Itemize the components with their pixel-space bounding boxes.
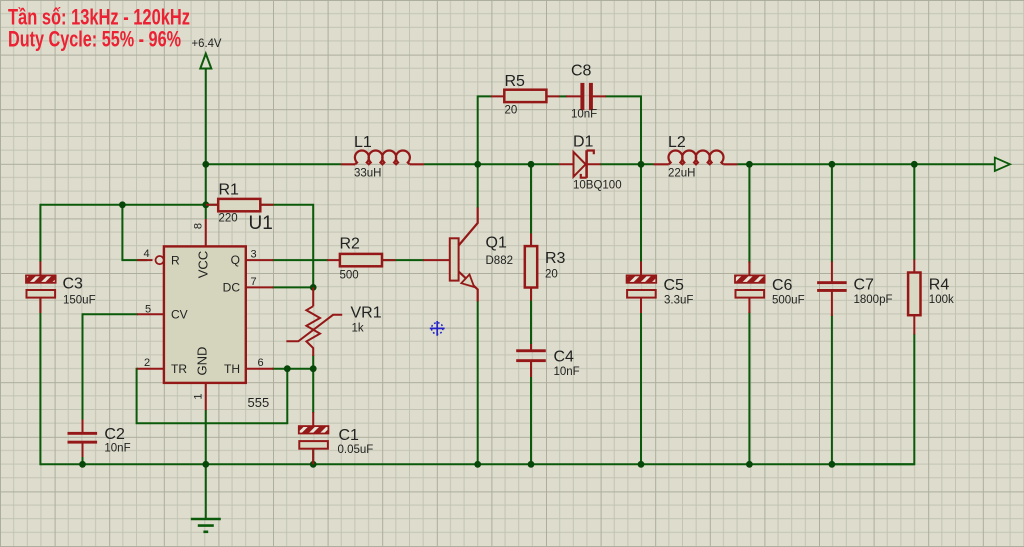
pin 5 CV	[137, 304, 188, 322]
svg-text:C2: C2	[104, 426, 125, 443]
wire C7 bottom to rail	[831, 315, 833, 465]
wire C3 branch vertical bottom	[39, 298, 41, 465]
capacitor C8 10nF	[566, 63, 606, 121]
wire C6 bottom to rail	[748, 312, 750, 464]
svg-text:22uH: 22uH	[668, 168, 696, 180]
pin 4 R with inversion bubble	[137, 248, 180, 267]
svg-text:C1: C1	[339, 427, 360, 444]
resistor R4	[908, 260, 954, 335]
svg-text:C8: C8	[571, 63, 592, 80]
svg-text:D882: D882	[486, 255, 514, 267]
inductor L1 33uH	[341, 134, 424, 180]
wire R2 to Q1 base	[382, 259, 425, 261]
node C5 bottom rail junction	[638, 461, 645, 468]
node R3 top junction	[528, 161, 535, 168]
potentiometer VR1 1k	[286, 287, 381, 356]
wire ground stem	[205, 464, 207, 519]
wire TH row horizontal	[272, 368, 313, 370]
ground	[191, 519, 221, 532]
wire reset branch from R1 row to pin4	[122, 205, 147, 260]
wire C2 bottom to rail	[82, 443, 84, 464]
wire top rail segment 1	[206, 163, 341, 165]
svg-text:10nF: 10nF	[554, 366, 580, 378]
node C6 top junction	[746, 161, 753, 168]
svg-text:R2: R2	[340, 236, 361, 253]
output terminal arrow	[995, 158, 1010, 171]
wire Q1 emitter to bottom rail	[477, 301, 479, 464]
svg-text:555: 555	[248, 395, 270, 410]
wire top rail segment 4	[737, 163, 995, 165]
wire C4 bottom to rail	[530, 376, 532, 464]
wire C1 bottom to rail	[312, 449, 314, 464]
svg-text:100k: 100k	[929, 294, 954, 306]
svg-text:TH: TH	[224, 362, 240, 376]
svg-text:D1: D1	[573, 134, 594, 151]
svg-text:1800pF: 1800pF	[854, 294, 893, 306]
capacitor C5 3.3uF polarized	[627, 262, 694, 314]
svg-text:150uF: 150uF	[63, 295, 96, 307]
inductor L2 22uH	[654, 134, 738, 180]
diode D1 10BQ100 schottky	[559, 134, 621, 192]
wire C7 branch top	[831, 164, 833, 262]
svg-text:10BQ100: 10BQ100	[573, 180, 622, 192]
svg-text:1k: 1k	[352, 323, 364, 335]
power symbol +6.4V arrow	[192, 36, 222, 69]
svg-text:DC: DC	[223, 280, 241, 294]
wire pin3 Q to R2	[272, 259, 328, 261]
svg-text:R4: R4	[929, 277, 950, 294]
wire R4 bottom corner to bottom rail	[832, 334, 914, 465]
svg-text:2: 2	[144, 357, 150, 369]
wire CV pin5 horizontal	[83, 313, 139, 315]
wire top rail segment 2	[424, 163, 560, 165]
node L1 right / Q1 collector junction	[474, 161, 481, 168]
resistor R2	[327, 236, 396, 282]
wire TH row down to C1	[312, 369, 314, 413]
node C7 top junction	[829, 161, 836, 168]
wire R1 output to VR1 column	[273, 205, 313, 288]
wire R1 row horizontal	[40, 204, 273, 206]
wire R5 to C8	[559, 95, 568, 97]
svg-text:Duty Cycle: 55% - 96%: Duty Cycle: 55% - 96%	[8, 27, 181, 52]
svg-text:VR1: VR1	[351, 305, 382, 322]
svg-text:4: 4	[144, 248, 150, 260]
wire C8 right to corner down to rail	[605, 96, 641, 164]
resistor R5	[491, 73, 560, 117]
node C8 C5 rail junction	[638, 161, 645, 168]
wire power vertical +6.4V to rail	[205, 69, 207, 165]
wire CV branch vertical to C2	[82, 313, 84, 420]
svg-text:L1: L1	[354, 134, 372, 151]
wire TR loop	[137, 369, 288, 424]
wire top rail segment 3	[600, 163, 654, 165]
node TR loop TH junction	[284, 365, 291, 372]
svg-text:R5: R5	[505, 73, 526, 90]
pin 8 VCC	[193, 219, 211, 278]
node pin7 VR1 top junction	[310, 284, 317, 291]
pin 7 DC	[223, 276, 274, 294]
svg-text:GND: GND	[195, 347, 210, 376]
capacitor C1 0.05uF polarized	[299, 412, 374, 464]
svg-text:33uH: 33uH	[354, 168, 382, 180]
wire R3 branch top	[530, 164, 532, 234]
svg-text:20: 20	[505, 105, 518, 117]
node VR1 bottom TH junction	[310, 365, 317, 372]
capacitor C7 1800pF	[817, 262, 892, 317]
svg-text:0.05uF: 0.05uF	[338, 444, 374, 456]
resistor R3	[525, 234, 566, 301]
resistor R1	[206, 182, 274, 225]
svg-text:C5: C5	[664, 277, 685, 294]
svg-text:C7: C7	[854, 277, 875, 294]
svg-text:3.3uF: 3.3uF	[664, 295, 693, 307]
svg-text:5: 5	[145, 304, 151, 316]
wire DC pin7 row horizontal	[272, 286, 313, 288]
capacitor C3 150uF polarized	[26, 262, 96, 314]
svg-text:500: 500	[340, 270, 359, 282]
svg-text:10nF: 10nF	[104, 443, 130, 455]
node C6 bottom rail junction	[746, 461, 753, 468]
svg-text:C3: C3	[63, 276, 84, 293]
wire C5 branch top	[640, 164, 642, 263]
svg-text:Q: Q	[231, 253, 240, 267]
svg-text:+6.4V: +6.4V	[192, 36, 222, 50]
wire R3 to C4	[530, 287, 532, 345]
capacitor C6 500uF polarized	[735, 262, 805, 314]
wire VR1 bottom to TH row	[312, 355, 314, 369]
transistor Q1 D882	[423, 208, 513, 302]
wire Q1 collector to rail	[477, 164, 479, 208]
svg-text:L2: L2	[668, 134, 686, 151]
node origin marker blue	[430, 321, 445, 336]
wire bottom rail	[40, 463, 914, 465]
wire R4 branch top	[913, 164, 915, 260]
node C4 bottom rail junction	[528, 461, 535, 468]
svg-text:CV: CV	[171, 308, 188, 322]
node R1 left junction on reset branch	[119, 201, 126, 208]
svg-text:3: 3	[251, 249, 257, 261]
svg-text:C4: C4	[554, 349, 575, 366]
wire C6 branch top	[748, 164, 750, 263]
node Q1 emitter rail junction	[474, 461, 481, 468]
node ground rail junction	[202, 461, 209, 468]
wire VCC stub top	[205, 164, 207, 219]
svg-text:6: 6	[258, 357, 264, 369]
svg-text:Q1: Q1	[486, 235, 507, 252]
svg-text:8: 8	[193, 223, 205, 229]
svg-text:R: R	[171, 253, 180, 267]
node power rail junction	[202, 161, 209, 168]
svg-text:20: 20	[545, 269, 558, 281]
pin 3 Q	[231, 249, 274, 268]
svg-text:TR: TR	[171, 362, 187, 376]
svg-text:7: 7	[251, 276, 257, 288]
svg-text:U1: U1	[249, 213, 273, 234]
op-amp U1 555 timer IC body	[164, 213, 273, 410]
svg-text:1: 1	[193, 393, 205, 399]
pin 6 TH	[224, 357, 273, 376]
svg-text:R3: R3	[545, 250, 566, 267]
wire C3 branch vertical top	[39, 204, 41, 262]
node C7 bottom rail junction	[829, 461, 836, 468]
wire C5 bottom to rail	[640, 312, 642, 464]
pin 1 GND	[193, 347, 210, 411]
svg-text:C6: C6	[772, 277, 793, 294]
wire R5 C8 loop left vertical	[478, 96, 492, 164]
node R1 power column junction	[202, 201, 209, 208]
wire GND pin1 down	[205, 410, 207, 464]
svg-text:VCC: VCC	[196, 251, 211, 278]
pin 2 TR	[137, 357, 187, 376]
capacitor C2 10nF	[68, 420, 131, 458]
svg-text:220: 220	[219, 213, 238, 225]
node C1 bottom rail junction	[310, 461, 317, 468]
node R4 top junction	[911, 161, 918, 168]
capacitor C4 10nF	[516, 344, 580, 378]
svg-text:10nF: 10nF	[571, 109, 597, 121]
node C2 bottom rail junction	[79, 461, 86, 468]
svg-text:R1: R1	[219, 182, 240, 199]
svg-text:500uF: 500uF	[772, 295, 805, 307]
